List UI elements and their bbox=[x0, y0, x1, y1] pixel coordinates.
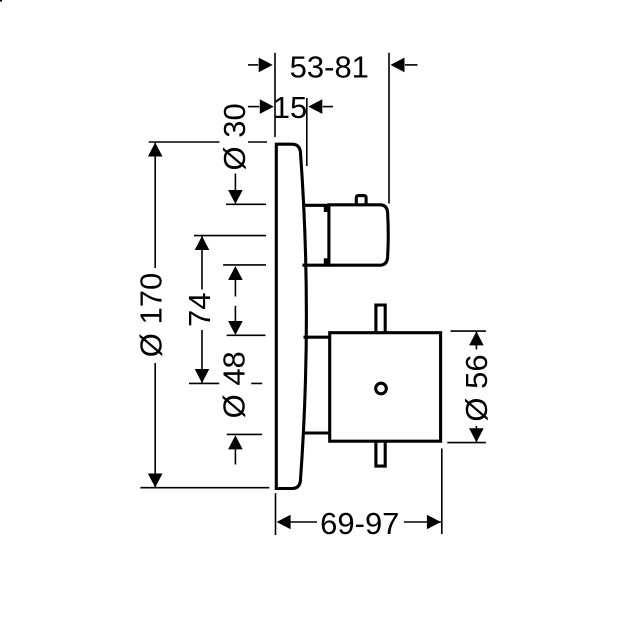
grip nub on thermostat handle bbox=[356, 196, 366, 206]
svg-text:Ø 30: Ø 30 bbox=[217, 103, 252, 170]
volume handle sleeve (bottom) bbox=[304, 337, 332, 433]
svg-text:Ø 170: Ø 170 bbox=[133, 273, 168, 357]
bottom tab on volume handle bbox=[376, 441, 385, 466]
volume handle body (square, bottom) bbox=[330, 333, 441, 442]
dimension 53-81 (wall to handle end) bbox=[248, 49, 418, 203]
dimension Ø30 (thermostat handle diameter) bbox=[217, 103, 266, 296]
center screw circle on volume handle bbox=[376, 383, 387, 394]
svg-text:Ø 56: Ø 56 bbox=[459, 354, 494, 421]
dimension 15 (plate thickness) bbox=[248, 90, 333, 166]
corner registration dot bbox=[0, 0, 2, 2]
svg-text:53-81: 53-81 bbox=[290, 49, 369, 84]
top tab on volume handle bbox=[376, 305, 385, 332]
svg-text:Ø 48: Ø 48 bbox=[217, 351, 252, 418]
thermostat handle body (top) bbox=[324, 205, 388, 266]
escutcheon plate (side profile) bbox=[276, 144, 306, 488]
dimension 74 (handle axis distance) bbox=[182, 236, 266, 384]
svg-text:74: 74 bbox=[182, 293, 217, 327]
thermostat handle sleeve (top) bbox=[303, 205, 330, 265]
dimension 69-97 (plate to handle front) bbox=[276, 449, 442, 541]
svg-text:69-97: 69-97 bbox=[320, 506, 399, 541]
dimension Ø48 (volume sleeve diameter) bbox=[217, 306, 266, 465]
dimension Ø170 (plate diameter) bbox=[133, 142, 269, 488]
dimension Ø56 (volume handle size) bbox=[447, 331, 494, 443]
svg-text:15: 15 bbox=[273, 90, 307, 125]
